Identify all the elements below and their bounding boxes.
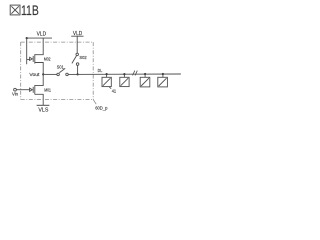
break mark on DL bbox=[133, 71, 138, 76]
svg-text:S02: S02 bbox=[79, 55, 87, 60]
leader to 60D_p label bbox=[93, 100, 96, 105]
wire S02 to DL bbox=[77, 65, 79, 74]
VLD rail (left) bbox=[27, 37, 52, 39]
svg-text:60D_p: 60D_p bbox=[95, 105, 107, 111]
VLS supply bbox=[37, 104, 50, 106]
svg-text:41: 41 bbox=[112, 89, 117, 95]
leader to 41 bbox=[109, 87, 111, 89]
svg-text:VLS: VLS bbox=[38, 107, 48, 113]
pixel cell 1 bbox=[102, 74, 111, 87]
pixel cell 3 bbox=[140, 74, 150, 87]
VLD bar (right) bbox=[71, 35, 83, 37]
wire DL data line bbox=[68, 73, 181, 75]
switch S01 bbox=[57, 68, 68, 75]
node dot rail left end bbox=[26, 37, 28, 39]
terminal Vin bbox=[14, 88, 17, 91]
switch S02 bbox=[72, 53, 79, 65]
svg-text:S01: S01 bbox=[57, 64, 64, 69]
svg-text:11B: 11B bbox=[21, 3, 39, 18]
transistor M02 bbox=[30, 38, 44, 74]
transistor M01 bbox=[30, 74, 44, 105]
svg-text:M02: M02 bbox=[44, 56, 51, 61]
svg-text:DL: DL bbox=[98, 68, 103, 73]
wire M02 gate net bbox=[27, 38, 30, 64]
wire VLD to S02 bbox=[76, 36, 78, 53]
junction S02/DL bbox=[77, 73, 79, 75]
svg-text:Vout: Vout bbox=[29, 72, 40, 77]
svg-text:Vin: Vin bbox=[12, 91, 19, 96]
svg-text:VLD: VLD bbox=[37, 31, 47, 37]
figure title 図11B bbox=[10, 5, 20, 15]
dashed block 60D_p boundary bbox=[21, 42, 94, 99]
svg-text:M01: M01 bbox=[44, 88, 51, 93]
pixel cell 2 bbox=[120, 74, 129, 87]
wire Vin to M01 gate bbox=[16, 89, 29, 91]
wire Vout to S01 bbox=[43, 73, 57, 75]
pixel cell 4 bbox=[158, 74, 168, 87]
